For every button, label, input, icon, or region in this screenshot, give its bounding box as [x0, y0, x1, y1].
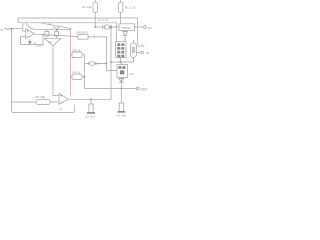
- svg-text:C2 10u: C2 10u: [117, 113, 127, 117]
- svg-text:IN: IN: [0, 28, 3, 32]
- wire D1 down: [124, 30, 126, 41]
- svg-text:TM64C: TM64C: [121, 26, 132, 30]
- resistor R2: [118, 2, 123, 12]
- resistor R3 stub: [71, 54, 73, 56]
- resistor Ra stub left: [46, 29, 48, 31]
- svg-text:A3: A3: [59, 107, 63, 111]
- svg-text:6.2V: 6.2V: [138, 44, 145, 48]
- wire riser top rail: [17, 18, 19, 23]
- wire box top: [120, 62, 122, 65]
- meter M2: [90, 61, 94, 65]
- wire top rail: [18, 17, 138, 19]
- wire to box D edge: [107, 70, 118, 72]
- wire rail y62: [111, 61, 134, 63]
- ground below U1: [29, 39, 31, 41]
- resistor R3: [72, 52, 82, 58]
- block battery pack: [116, 42, 127, 58]
- wire curve from second rail: [26, 23, 71, 29]
- wire R1 down: [94, 12, 96, 27]
- op-amp U1: [26, 29, 35, 39]
- node junction colB top: [110, 26, 112, 28]
- wire rail2 to battery box: [116, 23, 118, 42]
- resistor Rb: [55, 32, 59, 37]
- wire Rb to tri: [56, 36, 58, 38]
- wire Ra to tri: [46, 36, 48, 38]
- node junction cap C1: [90, 98, 92, 100]
- node junction M2: [106, 63, 108, 65]
- svg-text:+B: +B: [145, 51, 149, 55]
- label U3: [60, 95, 62, 102]
- wire input rail: [9, 28, 23, 30]
- node VIN input: [4, 28, 9, 30]
- block U2: [78, 35, 88, 40]
- wire right drop to V+: [137, 18, 139, 45]
- svg-text:R1 10k: R1 10k: [82, 5, 92, 9]
- node junction curve: [56, 28, 58, 30]
- wire left edge: [12, 29, 14, 113]
- resistor R4 stub: [71, 76, 73, 78]
- wire op-amp U1 in+: [23, 23, 26, 31]
- wire cap C2 drop: [120, 89, 122, 104]
- wire U3 out: [68, 98, 111, 100]
- block REG: [119, 24, 135, 31]
- node highlighted net (red): [70, 29, 72, 95]
- resistor Rb stub: [56, 29, 58, 31]
- svg-text:D2: D2: [130, 72, 134, 76]
- svg-text:LM10CN: LM10CN: [76, 31, 88, 35]
- terminal out: [136, 87, 139, 90]
- wire U1 in- stub: [21, 36, 26, 38]
- node junction out: [120, 88, 122, 90]
- capacitor C2: [119, 103, 123, 111]
- transistor tri current source: [44, 38, 61, 45]
- wire C1 drop: [90, 99, 92, 104]
- svg-text:R3 1k: R3 1k: [73, 49, 81, 53]
- wire second rail: [18, 22, 117, 24]
- wire U2 out: [88, 36, 107, 38]
- svg-text:R2 1.2k: R2 1.2k: [125, 6, 136, 10]
- wire R5 to U3: [50, 101, 59, 103]
- wire box bottom: [120, 78, 122, 89]
- svg-text:A2: A2: [49, 40, 53, 44]
- wire R4 right: [82, 76, 85, 78]
- svg-text:C1 10u: C1 10u: [85, 115, 95, 119]
- node junction R1: [94, 26, 96, 28]
- parts inside D2 box: [118, 66, 121, 69]
- wire slant to node B: [40, 23, 71, 29]
- wire lamp terminal: [137, 52, 141, 54]
- wire lamp bottom: [133, 58, 135, 63]
- lamp L1: [131, 43, 137, 58]
- terminal lamp: [141, 51, 144, 54]
- svg-text:V+: V+: [148, 26, 152, 30]
- node junction left: [11, 28, 13, 30]
- wire meter rail: [95, 26, 119, 28]
- node U1 output junction: [42, 34, 44, 36]
- wire tri output down: [53, 46, 59, 96]
- wire R2 down: [120, 12, 122, 23]
- wire R3 right: [82, 54, 85, 56]
- svg-text:M1 1mA: M1 1mA: [98, 18, 109, 22]
- node junction pack: [120, 61, 122, 63]
- diode D2: [119, 79, 124, 83]
- diode D1: [123, 32, 128, 36]
- node junction R4: [84, 76, 86, 78]
- wire meter M2 rail: [85, 63, 107, 65]
- svg-text:R5 10k: R5 10k: [36, 95, 46, 99]
- resistor R1 top stub: [94, 0, 96, 2]
- node junction colB rail: [110, 61, 112, 63]
- resistor Ra: [45, 32, 49, 37]
- wire U1 output to block: [34, 34, 78, 36]
- wire right column B: [110, 27, 112, 99]
- wire REG out: [135, 26, 144, 28]
- wire bottom edge: [14, 105, 75, 113]
- meter M1 on mid rail: [105, 25, 110, 30]
- node junction railB red: [70, 28, 72, 30]
- wire pack bottom: [120, 58, 122, 63]
- resistor R2 top stub: [120, 0, 122, 2]
- wire right of R3 R4 down: [84, 55, 86, 89]
- resistor R5: [36, 100, 50, 105]
- svg-text:R6 1k: R6 1k: [53, 26, 61, 30]
- block D2 box: [117, 65, 128, 78]
- wire lamp top stub: [133, 40, 135, 43]
- wire right column A: [106, 37, 108, 71]
- svg-text:R4 1k: R4 1k: [73, 71, 81, 75]
- cells inside pack: [117, 43, 120, 46]
- terminal V+: [144, 26, 147, 29]
- wire left to R5: [12, 101, 37, 103]
- svg-text:OUT: OUT: [141, 88, 148, 92]
- resistor R4: [72, 74, 82, 79]
- wire out rail: [85, 88, 137, 90]
- op-amp U3: [59, 94, 68, 105]
- wire U1 feedback: [21, 35, 44, 45]
- resistor R1: [93, 2, 98, 12]
- capacitor C1: [89, 104, 93, 113]
- svg-text:LM308: LM308: [36, 45, 44, 48]
